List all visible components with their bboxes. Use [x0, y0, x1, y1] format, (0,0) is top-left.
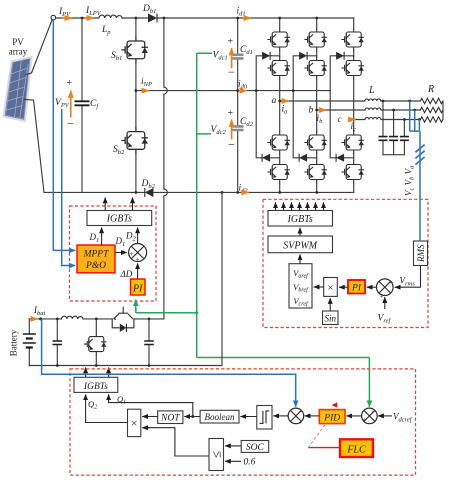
arrow i_d0 — [239, 90, 247, 92]
box lessequal — [209, 439, 224, 471]
svg-text:b: b — [309, 106, 314, 116]
battery bottom rail — [29, 192, 222, 365]
clamp rail leg3 — [330, 56, 354, 158]
arrow i_c — [349, 119, 356, 121]
box Sin — [323, 311, 339, 325]
inductor Lb — [365, 108, 381, 110]
box SOC — [241, 441, 269, 453]
node junction circle — [51, 15, 56, 20]
wire PV+ to node — [26, 20, 52, 75]
summer Vrms — [377, 279, 395, 301]
svg-text:RMS: RMS — [416, 244, 426, 263]
block FLC — [340, 439, 373, 457]
arrow Boolean to NOT — [184, 416, 200, 418]
inductor La — [365, 99, 381, 101]
summer MPPT — [129, 244, 147, 264]
svg-text:+: + — [130, 250, 134, 258]
svg-text:Sin: Sin — [324, 314, 336, 324]
arrow summer to PI — [367, 286, 377, 288]
svg-text:+: + — [362, 417, 366, 424]
clamp rail leg1 — [256, 56, 280, 158]
arrow NOT to mult — [142, 416, 158, 418]
arrow SOC to lessequal — [225, 445, 241, 447]
svg-text:P&O: P&O — [85, 261, 106, 271]
blue sense PV — [53, 20, 75, 266]
wire capacitor star tie — [383, 154, 404, 156]
svg-text:+: + — [136, 256, 140, 264]
diode Db2 — [145, 188, 154, 197]
arrow Vref to SVPWM — [299, 254, 301, 263]
svg-text:IGBTs: IGBTs — [106, 214, 132, 225]
MPPT dashed box — [70, 206, 157, 301]
switch Qbat high — [112, 307, 134, 332]
svg-text:+: + — [67, 78, 73, 89]
block PI svpwm — [348, 280, 365, 294]
svg-text:SVPWM: SVPWM — [283, 241, 318, 252]
phase c wire — [354, 119, 421, 121]
arrow i_d2 — [241, 191, 249, 193]
arrow D1 gate — [101, 228, 103, 246]
resistor Ra — [420, 98, 442, 103]
svg-text:PV: PV — [12, 37, 24, 47]
svg-text:−: − — [372, 408, 376, 416]
arrow summer to IGBTs — [137, 228, 139, 244]
arrow i_NP — [142, 90, 149, 92]
arrow I_bat — [31, 318, 39, 320]
clamp diode D1+ — [262, 52, 270, 60]
inductor Lbat — [62, 316, 84, 319]
arrow relay to Boolean — [240, 416, 256, 418]
capacitor bat2 — [144, 319, 154, 366]
svg-text:+: + — [380, 293, 384, 301]
inverter leg 2 — [304, 18, 327, 192]
FLC dashed link — [308, 425, 325, 448]
junction dots power — [81, 17, 421, 194]
svg-text:×: × — [131, 416, 138, 430]
V_dc1 indicator — [228, 37, 236, 80]
junction dots battery — [39, 317, 150, 367]
multiplier box — [324, 278, 338, 297]
battery symbol — [23, 319, 36, 366]
box IGBTs battery — [74, 377, 118, 392]
svg-text:+: + — [228, 108, 234, 119]
capacitor Cf — [75, 18, 90, 192]
svg-text:MPPT: MPPT — [83, 250, 110, 260]
battery control dashed box — [70, 369, 416, 475]
arrow SVPWM to IGBTs — [299, 228, 301, 236]
gate wire Sb1 — [104, 198, 106, 211]
svg-text:Boolean: Boolean — [205, 412, 235, 422]
wire neutral i_NP — [136, 90, 330, 92]
svg-text:FLC: FLC — [346, 445, 366, 456]
FLC link line — [308, 447, 340, 449]
blue sense 3ph — [410, 101, 425, 241]
svg-text:PID: PID — [323, 414, 340, 424]
svg-text:array: array — [9, 47, 28, 57]
arrow Vdc summer to PID — [346, 415, 362, 417]
arrow Vref input — [384, 297, 386, 309]
phase a wire — [280, 100, 421, 102]
wire DC+ drop with hops — [164, 18, 167, 319]
block MPPT P&O — [77, 245, 115, 273]
green sense Vdc — [136, 53, 370, 407]
svg-text:L: L — [368, 85, 375, 96]
relay block — [257, 406, 272, 430]
svg-text:ΔD: ΔD — [120, 269, 133, 279]
svg-text:NOT: NOT — [160, 414, 180, 424]
box SVPWM — [268, 236, 333, 253]
box Vabc ref — [289, 264, 312, 308]
DC-link string — [237, 18, 239, 192]
PID marker flag — [332, 402, 338, 408]
svg-text:0.6: 0.6 — [244, 458, 256, 468]
clamp diode D3- — [336, 154, 344, 162]
arrow I_LPV — [84, 17, 94, 19]
svg-text:−: − — [67, 117, 74, 131]
arrow i_d1 — [243, 17, 251, 19]
arrow PID to summer — [305, 415, 320, 417]
battery top rail — [29, 318, 164, 320]
svg-text:IGBTs: IGBTs — [83, 382, 108, 392]
diode Db1 — [148, 14, 157, 23]
arrow i_b — [320, 109, 327, 111]
filter capacitor Ca — [379, 101, 388, 155]
svg-text:+: + — [299, 420, 303, 427]
wire R common — [442, 101, 444, 120]
svg-text:R: R — [427, 84, 434, 95]
inverter leg 3 — [341, 18, 364, 192]
V_PV polarity indicator — [67, 78, 75, 131]
arrow Vdcref — [378, 415, 392, 417]
inductor Lc — [365, 118, 381, 120]
block PID — [319, 410, 345, 424]
arrow mult to Vref — [314, 286, 324, 288]
svg-text:SOC: SOC — [246, 443, 265, 453]
switch Sb1 — [121, 36, 148, 63]
box IGBTs boost — [87, 211, 152, 226]
arrow PI to mult — [339, 286, 348, 288]
gate arrows battery — [85, 368, 87, 378]
wire RMS to summer — [395, 266, 421, 288]
block PI boost — [131, 279, 146, 295]
arrow I_PV — [62, 17, 72, 19]
svg-text:×: × — [327, 282, 333, 294]
arrow PI to summer — [137, 263, 139, 279]
PV array panel — [4, 57, 32, 121]
SVPWM dashed box — [263, 199, 428, 327]
clamp diode D3+ — [336, 52, 344, 60]
inverter leg 1 — [267, 18, 290, 192]
wire Q1 — [109, 394, 195, 418]
resistor Rb — [420, 107, 442, 112]
svg-text:Battery: Battery — [9, 329, 19, 356]
phase b wire — [317, 109, 421, 111]
svg-text:−: − — [228, 65, 235, 79]
clamp rail leg2 — [293, 56, 317, 158]
box Boolean — [200, 410, 239, 423]
summer battery — [288, 408, 304, 427]
multiplier box battery — [128, 409, 141, 436]
wire bottom rail — [44, 191, 354, 193]
arrow Sin to mult — [329, 298, 331, 311]
wire Q2 — [86, 394, 128, 422]
arrow summer to relay — [273, 415, 288, 417]
wire lessequal to mult — [142, 428, 209, 456]
clamp diode D2- — [299, 154, 307, 162]
arrow MPPT to summer — [115, 252, 127, 254]
wire Sb1 branch — [135, 18, 137, 192]
svg-text:−: − — [228, 138, 235, 152]
capacitor Cd2 — [232, 126, 244, 130]
filter capacitor Cb — [389, 110, 398, 155]
capacitor Cd1 — [232, 55, 244, 59]
resistor Rc — [420, 117, 442, 122]
svg-text:+: + — [228, 37, 234, 48]
box NOT — [158, 411, 183, 424]
svg-text:PI: PI — [351, 284, 362, 294]
inductor Lp — [99, 15, 122, 18]
gate wire Sb2 — [132, 198, 134, 211]
svg-text:−: − — [390, 279, 395, 288]
clamp diode D2+ — [299, 52, 307, 60]
svg-text:IGBTs: IGBTs — [287, 214, 313, 225]
svg-text:−: − — [299, 408, 303, 416]
arrow i_a — [282, 100, 289, 102]
arrow 0.6 to lessequal — [225, 460, 241, 462]
wire PV- to bottom rail — [25, 100, 45, 193]
V_dc2 indicator — [228, 108, 236, 152]
box IGBTs inverter — [268, 211, 333, 227]
filter capacitor Cc — [400, 120, 409, 155]
svg-text:≤: ≤ — [209, 451, 224, 458]
capacitor bat1 — [53, 319, 63, 366]
summer Vdc — [362, 408, 378, 424]
clamp diode D1- — [262, 154, 270, 162]
switch Qbat low — [84, 319, 107, 366]
svg-text:a: a — [272, 96, 277, 106]
box RMS — [414, 241, 428, 266]
gate arrows inverter — [276, 202, 324, 210]
switch Sb2 — [121, 127, 148, 154]
wire top rail left — [56, 17, 354, 19]
blue sense battery — [42, 319, 296, 407]
svg-text:PI: PI — [132, 284, 143, 295]
